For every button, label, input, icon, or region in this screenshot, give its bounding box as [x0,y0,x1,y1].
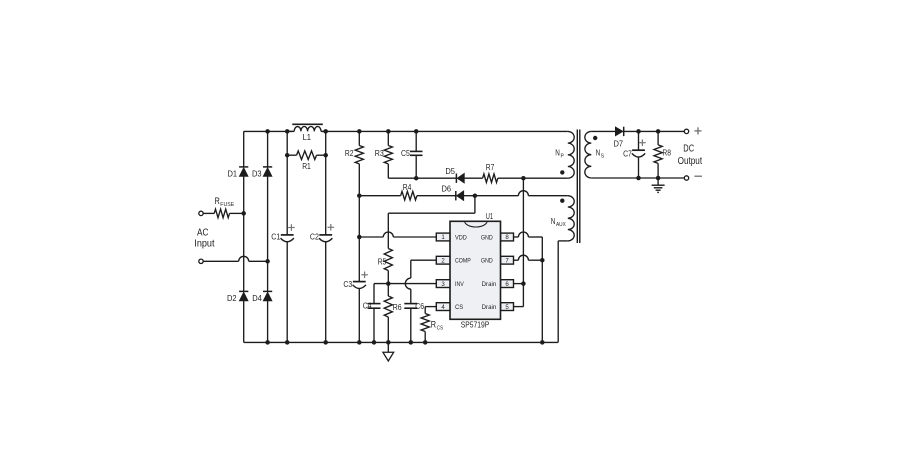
svg-text:R2: R2 [345,149,354,158]
node snubber junction [521,176,526,181]
op-amp U1 body SP5719P [450,221,501,319]
wire COMP pin2 line [411,259,437,261]
svg-text:P: P [561,154,565,160]
diode D1 [239,166,248,168]
wire L1 left stub [287,130,294,132]
diode D4 [263,290,272,292]
svg-text:D4: D4 [252,294,262,303]
svg-text:SP5719P: SP5719P [461,320,490,330]
wire pin7 to GND bus [514,259,519,261]
wire D5 to R7 [464,177,482,179]
node R8 bottom junction [656,176,661,181]
svg-text:C3: C3 [343,280,352,289]
node R3 top junction [386,129,391,134]
svg-text:D6: D6 [442,185,452,194]
resistor RFUSE [214,209,229,218]
svg-text:L1: L1 [303,133,312,142]
svg-text:Drain: Drain [482,282,497,288]
wire D3/D4 column [267,131,269,167]
wire bottom rail [244,341,558,343]
node junction AC/D3 column [265,259,270,264]
node R1 left junction [285,153,290,158]
U1 pin 4 box [436,303,450,311]
resistor R5 [384,249,392,271]
node DC output + terminal [684,129,688,133]
svg-text:S: S [601,154,605,160]
inductor L1 [294,126,321,131]
wire R3 column [387,131,389,145]
diode D6 [455,191,457,200]
svg-text:C6: C6 [415,302,424,311]
node C7 bottom junction [636,176,641,181]
node AC terminal top [199,211,203,215]
U1 pin 6 box [501,280,514,288]
resistor R7 [483,174,498,183]
inductor L1 core bar [292,123,323,125]
wire C4 column [373,284,375,304]
node NAUX polarity dot [560,199,564,203]
capacitor C6 [404,303,417,305]
wire pin6 to drain bus [514,283,524,285]
resistor RCS [424,307,426,314]
svg-text:Drain: Drain [482,305,497,311]
wire C5 to D5 [416,177,456,179]
wire D6 junction to NAUX with hop [475,195,519,197]
svg-text:FUSE: FUSE [220,202,234,208]
node C1 bottom junction [285,340,290,345]
resistor R6 [387,284,389,296]
U1 pin 5 box [501,303,514,311]
svg-text:C1: C1 [271,233,280,242]
node C3 bottom junction [357,340,362,345]
U1 pin 7 box [501,256,514,264]
svg-text:C5: C5 [401,149,410,158]
node R5/R6/INV junction [386,281,391,286]
label minus [694,175,702,177]
wire drain bus vertical [522,178,524,306]
svg-text:R3: R3 [375,149,384,158]
svg-text:R1: R1 [302,162,311,171]
svg-text:D1: D1 [228,169,238,178]
transformer core [576,130,578,244]
svg-text:GND: GND [481,258,493,265]
node R2 top junction [357,129,362,134]
U1 notch [465,221,488,227]
wire R7 to transformer [498,177,568,179]
resistor R3 [384,146,392,164]
node L1 right junction [323,129,328,134]
svg-text:N: N [551,217,556,226]
node C6 bottom junction [409,340,414,345]
resistor R1 [297,151,317,160]
wire RFUSE to bridge [230,212,244,214]
svg-text:CS: CS [455,304,464,311]
svg-text:DC: DC [683,143,694,155]
capacitor C7 [638,131,640,150]
wire D1/D2 column [243,131,245,167]
label plus [694,130,701,132]
svg-text:VDD: VDD [455,235,467,242]
node pin7 junction [540,258,545,263]
wire CS pin4 line [425,306,436,308]
transformer secondary NS winding [585,131,591,178]
wire pin8 to GND bus [514,236,519,238]
wire C1 column [286,131,288,235]
transformer aux NAUX winding [568,196,574,241]
node NP polarity dot [560,170,564,174]
wire R4 line [359,195,400,197]
diode D7 [615,127,623,136]
svg-text:U1: U1 [486,212,494,221]
diode D2 [239,290,248,292]
svg-text:INV: INV [455,281,464,288]
resistor R8 [657,131,659,145]
node R2/VDD junction [357,235,362,240]
svg-text:CS: CS [437,326,444,332]
wire R4 to D6 [417,195,456,197]
wire C2 column [325,131,327,235]
svg-text:COMP: COMP [455,258,471,265]
wire INV pin3 line [374,283,436,285]
svg-text:R8: R8 [662,149,671,158]
wire D7 to output + [624,130,685,132]
diode D3 [263,166,272,168]
capacitor C4 [368,303,381,305]
wire NS top to D7 [591,130,615,132]
node D4 bottom junction [265,340,270,345]
U1 pin 8 box [501,233,514,241]
node GND bus to bottom rail [540,340,545,345]
node C4 bottom junction [372,340,377,345]
wire C6 column with hop over INV [405,278,410,289]
node RCS bottom junction [423,340,428,345]
node R6 bottom junction [386,340,391,345]
svg-text:GND: GND [481,234,493,241]
U1 pin 2 box [436,256,450,264]
svg-text:R7: R7 [486,163,495,172]
node pin6 junction [521,281,526,286]
svg-text:R: R [215,196,221,206]
wire pin5 to drain bus [514,306,524,308]
svg-text:R: R [431,320,437,330]
node D3 top junction [265,129,270,134]
resistor R2 [355,146,363,164]
svg-text:R6: R6 [393,303,402,312]
node NS polarity dot [593,136,597,140]
ground earth symbol [657,178,659,185]
node junction RFUSE/D1 column [241,211,246,216]
svg-text:AC: AC [197,226,209,238]
node C5 top junction [414,129,419,134]
wire RFUSE lead [203,212,214,214]
wire AC bottom with hop over D1 column [203,260,238,262]
svg-text:C4: C4 [363,301,372,310]
wire D6 junction down and left to R5 top [474,196,476,214]
svg-text:C7: C7 [623,149,632,158]
wire NS bottom output [591,177,684,179]
svg-text:N: N [555,149,560,158]
svg-text:Input: Input [194,238,214,250]
svg-text:D3: D3 [252,169,262,178]
node C5 bottom junction [414,176,419,181]
svg-text:Output: Output [678,155,703,167]
wire C5 column [415,131,417,151]
node L1 left junction [285,129,290,134]
capacitor C3 [353,281,366,283]
node C7 top junction [636,129,641,134]
ground symbol (signal ground triangle) [387,342,389,352]
wire VDD line pin1 [359,236,383,238]
node D6 junction [473,193,478,198]
svg-text:D7: D7 [614,139,624,148]
transformer primary NP winding [568,131,574,178]
node R8 top junction [656,129,661,134]
diode D5 [455,174,457,183]
wire R2 column [358,131,360,145]
svg-text:C2: C2 [310,233,319,242]
capacitor C2 [319,234,332,236]
svg-text:D2: D2 [227,294,237,303]
svg-text:R4: R4 [403,183,412,192]
capacitor C1 [281,234,294,236]
svg-text:R5: R5 [378,258,387,267]
node R1 right junction [323,153,328,158]
capacitor C5 [410,150,423,152]
svg-text:AUX: AUX [556,222,566,228]
wire NAUX bottom to rail [558,240,568,242]
node R2/R4 junction [357,193,362,198]
node DC output - terminal [684,176,688,180]
svg-text:D5: D5 [445,167,455,176]
wire R3 bottom corner to C5 [387,164,389,178]
svg-text:N: N [596,149,601,158]
wire R1 branch [287,154,296,156]
wire top rail [244,130,293,132]
resistor R4 [401,191,417,200]
U1 pin 1 box [436,233,450,241]
U1 pin 3 box [436,280,450,288]
node C2 bottom junction [323,340,328,345]
node AC terminal bottom [199,259,203,263]
